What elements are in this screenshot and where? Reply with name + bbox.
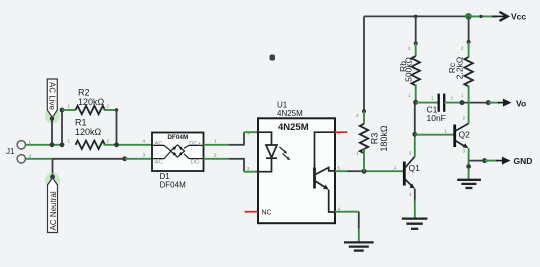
phototransistor inside U1 xyxy=(315,132,336,212)
svg-text:R1: R1 xyxy=(75,117,87,127)
svg-text:4N25M: 4N25M xyxy=(278,122,309,133)
svg-text:120kΩ: 120kΩ xyxy=(78,97,105,107)
resistor Rc 2.2k (vertical) xyxy=(447,16,473,123)
LED inside U1 xyxy=(258,132,277,172)
transistor Q2 xyxy=(415,116,470,154)
svg-text:Q2: Q2 xyxy=(459,130,471,140)
wire U1 pin4 emitter to ground xyxy=(335,212,359,242)
NC pin (no connect, red) xyxy=(245,211,259,213)
svg-text:NC: NC xyxy=(262,210,272,217)
svg-text:2.2kΩ: 2.2kΩ xyxy=(454,57,464,79)
svg-text:10nF: 10nF xyxy=(427,113,446,123)
red NC stub pin6 xyxy=(335,131,348,133)
ground (Q2) xyxy=(457,180,481,188)
svg-text:R2: R2 xyxy=(78,87,90,97)
svg-text:120kΩ: 120kΩ xyxy=(75,127,102,137)
wire D1 DC+ to U1 pin1 xyxy=(204,132,259,145)
Q1 emitter wire to ground xyxy=(414,189,416,218)
flag AC Neutral xyxy=(45,159,60,233)
svg-text:4N25M: 4N25M xyxy=(277,109,303,118)
Vcc rail xyxy=(364,11,526,21)
svg-text:Vo: Vo xyxy=(516,98,526,108)
ground (U1 emitter) xyxy=(344,242,374,250)
svg-text:500kΩ: 500kΩ xyxy=(404,57,414,82)
svg-text:R3: R3 xyxy=(370,133,380,145)
bridge rectifier D1 DF04M xyxy=(152,133,204,190)
connector J1 xyxy=(6,140,32,164)
capacitor C1 10nF xyxy=(416,94,462,123)
svg-text:J1: J1 xyxy=(6,147,15,156)
svg-text:DF04M: DF04M xyxy=(160,181,187,190)
resistor R3 180k (vertical) xyxy=(356,16,389,171)
svg-text:D1: D1 xyxy=(160,172,171,181)
wire J1 pin2 to D1 (neutral net) xyxy=(26,153,152,162)
svg-text:AC: AC xyxy=(155,160,163,166)
resistor R1 120k (inline, y=144.8) xyxy=(68,117,110,149)
resistor R2 120k (parallel branch, y=110) xyxy=(60,87,119,145)
svg-text:180kΩ: 180kΩ xyxy=(379,125,389,152)
wire U1 pin5 to Q1 base / R3 xyxy=(335,165,403,174)
ground (Q1) xyxy=(402,219,428,229)
svg-text:GND: GND xyxy=(514,156,533,166)
flag AC Live xyxy=(45,79,60,145)
svg-text:DC-: DC- xyxy=(191,160,201,166)
wire D1 DC- to U1 pin2 xyxy=(204,153,259,172)
Q1 collector wire up xyxy=(412,102,417,156)
svg-text:AC Neutral: AC Neutral xyxy=(49,191,58,230)
wire R1 right to D1 xyxy=(104,139,152,148)
node C1 right / Vo net xyxy=(460,98,527,108)
node (junction dot on live net) xyxy=(50,142,55,147)
bridge diamond xyxy=(152,145,204,159)
node xyxy=(60,142,65,147)
svg-text:DF04M: DF04M xyxy=(167,134,188,141)
svg-text:Q1: Q1 xyxy=(409,163,421,173)
wire J1 pin1 to node xyxy=(26,144,62,146)
Q2 emitter / GND xyxy=(466,148,532,178)
resistor Rb 500k (vertical) xyxy=(398,16,420,104)
artifact dot xyxy=(270,55,276,61)
svg-text:AC Live: AC Live xyxy=(47,82,56,111)
svg-text:Vcc: Vcc xyxy=(511,11,526,21)
transistor Q1 xyxy=(404,151,420,198)
optocoupler U1 4N25M xyxy=(245,101,341,224)
